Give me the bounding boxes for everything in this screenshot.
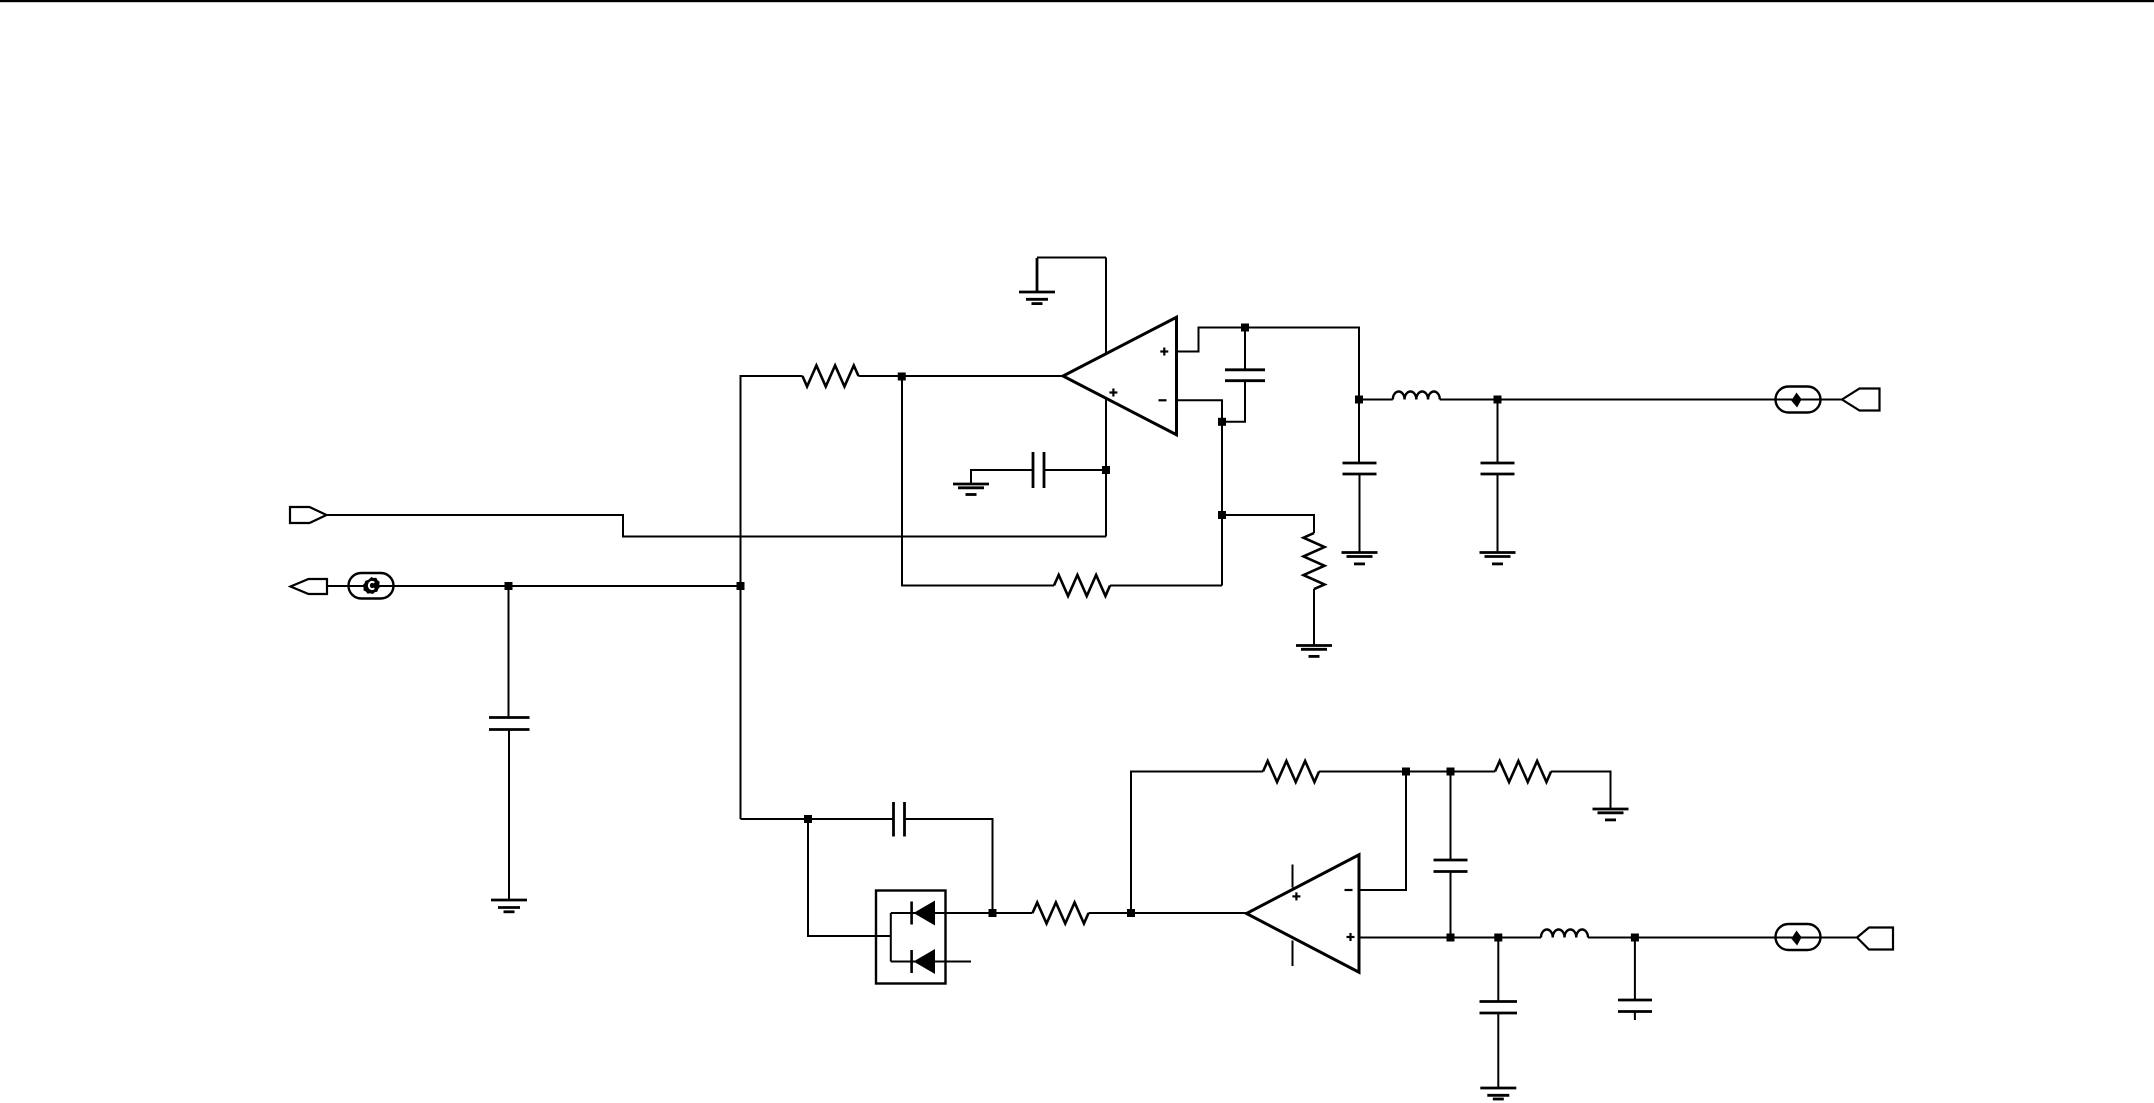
node F: junction dot <box>1402 768 1410 776</box>
ground G1 (top, above op-amp U1) <box>1019 258 1055 304</box>
wire: C6 right lead <box>1044 469 1106 471</box>
capacitor C9 (open stub) <box>1634 938 1636 1001</box>
wire: ground G1 to supply vertical <box>1037 257 1106 259</box>
wire: to inductor L1 <box>1359 399 1393 401</box>
node: junction dot C7 bottom <box>1447 934 1455 942</box>
wire: output rail to left connector <box>327 585 741 587</box>
wire: node F down to U2 minus input <box>1359 772 1406 891</box>
wire: node D to resistor R4 <box>993 912 1033 914</box>
resistor R1 (top, horizontal) <box>802 366 858 387</box>
pin: U2 positive supply stub <box>1292 865 1294 888</box>
wire: C5 right lead down to bottom rail <box>905 819 993 913</box>
resistor R6 (to ground G5) <box>1495 761 1551 782</box>
op-amp U2 (bottom, pointing left) <box>1247 855 1360 973</box>
wire: U1 apex to resistor R1 <box>859 375 1064 377</box>
wire: lower diode stub <box>891 961 971 963</box>
connector oval CONN1 (top right) <box>1776 387 1821 413</box>
label: U2 inverting input minus <box>1345 889 1353 891</box>
wire: C2 top lead <box>1244 328 1246 370</box>
diode pair D1 (box) <box>876 891 946 984</box>
wire: U1 minus input vertical <box>1177 400 1223 585</box>
wire: lower horizontal to input flag P1 <box>327 515 1107 537</box>
ground G8 <box>1480 553 1516 564</box>
wire: node to resistor R3 <box>1222 515 1314 533</box>
resistor R3 (vertical, to ground G3) <box>1304 533 1325 589</box>
ground G4 (below C4) <box>491 900 527 912</box>
icon: CONN1 kite glyph <box>1791 393 1801 408</box>
node: junction dot C2-bottom on inverting vertical <box>1218 418 1226 426</box>
node: junction dot to R3 branch <box>1218 511 1226 519</box>
node: junction dot at C5 left <box>804 815 812 823</box>
node C: junction dot <box>1494 396 1502 404</box>
wire: R1 to long left vertical <box>741 376 803 819</box>
ground G2 (left of C6) <box>953 484 989 495</box>
capacitor C2 (across U1 inputs) <box>1225 370 1265 381</box>
wire: C6 left lead to ground G2 <box>971 470 1033 484</box>
label: U1 non-inverting input plus <box>1160 348 1168 356</box>
wire: feedback up and over <box>1131 772 1263 914</box>
wire: U1 plus input to node B <box>1177 328 1246 352</box>
inductor L1 (top right) <box>1393 391 1440 399</box>
connector tag T2 (bottom right, points left) <box>1857 928 1893 950</box>
node: junction dot at U1 output <box>898 373 906 381</box>
resistor R4 (bottom, horizontal) <box>1033 903 1089 924</box>
label: U2 output plus (middle) <box>1292 892 1300 900</box>
top border bar <box>0 0 2154 2</box>
wire: feedback left segment and vertical to output node <box>902 377 1054 586</box>
capacitor C5 (bottom, horizontal) <box>894 802 905 837</box>
connector oval CONN2 (net label, left) <box>349 573 394 599</box>
wire: R5 to node F <box>1319 771 1406 773</box>
wire: U2 plus input rail <box>1359 937 1541 939</box>
label: U2 non-inverting input plus <box>1347 933 1355 941</box>
diode D1a (upper, points left) <box>910 902 913 925</box>
resistor R2 (feedback, horizontal) <box>1054 575 1110 596</box>
ground G7 <box>1342 553 1378 564</box>
resistor R5 (feedback top) <box>1263 761 1319 782</box>
wire: branch down to diode pair <box>808 819 891 936</box>
wire: C2 bottom lead to inverting wire <box>1222 381 1245 422</box>
wire: node B to top-right rail corner <box>1245 328 1359 400</box>
pin: U2 negative supply stub <box>1292 941 1294 967</box>
wire: L1 to node C <box>1440 399 1498 401</box>
wire: L2 to connector CONN3 <box>1588 937 1857 939</box>
capacitor C4 (big, to ground G4) <box>508 586 510 718</box>
connector tag T1 (top right, points left) <box>1842 389 1880 411</box>
capacitor C3 (under L1 left node, to ground G7) <box>1358 400 1360 464</box>
node B: junction dot at C2 top <box>1241 324 1249 332</box>
wire: diode common vertical <box>890 913 892 962</box>
wire: node E to op-amp U2 apex <box>1131 912 1247 914</box>
wire: supply vertical through op-amp U1 <box>1105 258 1107 537</box>
wire: feedback horizontal right segment <box>1110 585 1222 587</box>
node: junction dot C8 top <box>1494 934 1502 942</box>
capacitor C3b (under node C, to ground G8) <box>1497 400 1499 464</box>
wire: upper diode line to node D <box>891 912 993 914</box>
wire: R3 bottom lead <box>1313 589 1315 646</box>
node: junction dot top-right rail left <box>1355 396 1363 404</box>
ground G5 <box>1593 809 1629 820</box>
node G: junction dot <box>1447 768 1455 776</box>
op-amp U1 (top, pointing left) <box>1063 317 1177 435</box>
node E: junction dot feedback takeoff <box>1127 909 1135 917</box>
node: junction dot at C4 <box>505 582 513 590</box>
capacitor C7 (node G to plus rail) <box>1450 772 1452 861</box>
diode D1b (lower, points left) <box>910 950 913 973</box>
inductor L2 (bottom right) <box>1541 929 1588 937</box>
connector oval CONN3 (bottom right) <box>1776 924 1821 950</box>
node D: junction dot bottom rail left <box>989 909 997 917</box>
node: junction dot at supply vertical / capacitor C6 <box>1102 466 1110 474</box>
capacitor C8 (to ground G6) <box>1497 938 1499 1002</box>
wire: node C to connector CONN1 <box>1498 399 1843 401</box>
wire: left vertical corner into bottom cell <box>741 818 809 820</box>
ground G3 (below R3) <box>1296 646 1332 657</box>
icon: CONN2 gear glyph <box>363 577 380 594</box>
wire: R6 to ground G5 <box>1551 772 1611 810</box>
wire: R4 to node E <box>1089 912 1132 914</box>
ground G6 <box>1480 1088 1516 1099</box>
connector flag P1 (top left, points right) <box>290 507 327 523</box>
capacitor C6 (horizontal, left of U1) <box>1033 452 1044 488</box>
node: junction dot at left vertical / out wire <box>737 582 745 590</box>
connector arrow P2 (left, points left) <box>291 579 328 594</box>
label: U1 inverting input minus <box>1159 399 1167 401</box>
icon: CONN3 kite glyph <box>1791 931 1801 946</box>
wire: node F to node G <box>1406 771 1495 773</box>
wire: to capacitor C5 <box>808 818 894 820</box>
label: U1 output plus (middle) <box>1109 389 1117 397</box>
node: junction dot C9 top <box>1631 934 1639 942</box>
